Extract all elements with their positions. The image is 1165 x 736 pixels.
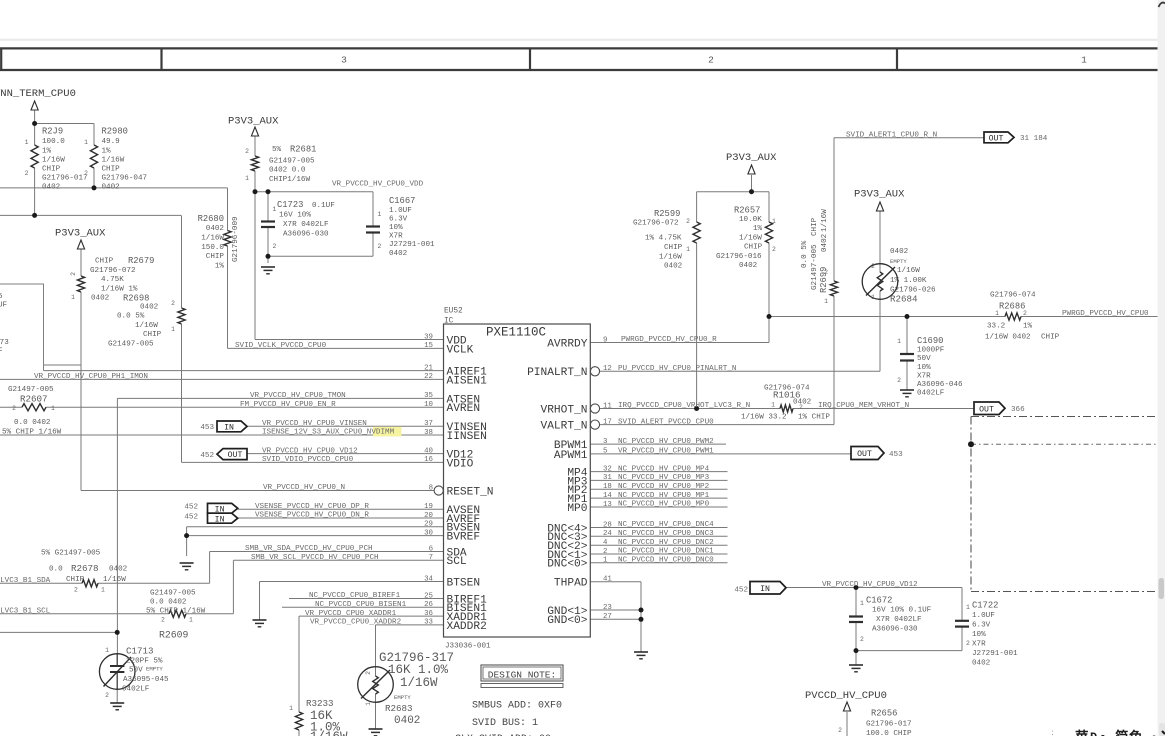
svg-text:J27291-001: J27291-001 [389, 241, 435, 249]
svg-text:IINSEN: IINSEN [447, 431, 487, 443]
svg-text:IRQ_PVCCD_CPU0_VRHOT_LVC3_R_N: IRQ_PVCCD_CPU0_VRHOT_LVC3_R_N [618, 402, 750, 410]
svg-text:G21796-072: G21796-072 [633, 220, 679, 228]
svg-text:2: 2 [708, 54, 714, 65]
svg-text:BTSEN: BTSEN [447, 577, 481, 589]
svg-text:SCL: SCL [447, 556, 467, 568]
svg-text:5% CHIP 1/16W: 5% CHIP 1/16W [2, 428, 62, 436]
svg-text:4.75K: 4.75K [101, 276, 124, 284]
svg-text:1: 1 [71, 294, 75, 301]
svg-text:36: 36 [424, 610, 433, 618]
svg-text:50V: 50V [917, 355, 931, 363]
svg-text:8: 8 [429, 484, 433, 492]
svg-text:VALRT_N: VALRT_N [541, 421, 588, 433]
svg-text:3: 3 [341, 54, 347, 65]
svg-text:1%: 1% [1023, 323, 1033, 331]
svg-text:G21497-005: G21497-005 [269, 157, 315, 165]
svg-text:1: 1 [365, 702, 372, 706]
svg-text:R2684: R2684 [890, 294, 918, 305]
svg-text:29: 29 [424, 521, 433, 529]
svg-text:2: 2 [603, 548, 607, 556]
svg-text:0.0 5%: 0.0 5% [117, 313, 145, 321]
svg-text:IN: IN [224, 424, 234, 433]
svg-text:R2683: R2683 [385, 703, 413, 714]
svg-text:0402LF: 0402LF [122, 685, 150, 693]
svg-text:5: 5 [0, 293, 3, 301]
svg-text:1/16W: 1/16W [310, 730, 348, 736]
svg-text:1/16W: 1/16W [201, 235, 224, 243]
svg-text:0402: 0402 [91, 295, 110, 303]
svg-text:150.0: 150.0 [201, 244, 224, 252]
svg-text:0402: 0402 [109, 566, 128, 574]
svg-text:20: 20 [424, 512, 433, 520]
svg-text:1%: 1% [42, 147, 52, 155]
svg-text:IN: IN [215, 515, 225, 524]
svg-text:R2609: R2609 [159, 630, 189, 641]
svg-text:IC: IC [444, 318, 454, 326]
svg-text:1/16W 0402: 1/16W 0402 [985, 334, 1031, 342]
svg-text:452: 452 [734, 587, 748, 595]
svg-text:D: D [1090, 731, 1097, 736]
svg-text:G21796-009: G21796-009 [232, 216, 240, 262]
svg-text:16K 1.0%: 16K 1.0% [388, 663, 449, 677]
svg-text:1: 1 [824, 298, 828, 305]
svg-text:49.9: 49.9 [102, 138, 121, 146]
svg-text:5% G21497-005: 5% G21497-005 [41, 550, 101, 558]
svg-text:VR_PVCCD_HV_CPU0_VINSEN: VR_PVCCD_HV_CPU0_VINSEN [262, 420, 367, 428]
svg-text:NC_PVCCD_HV_CPU0_MP3: NC_PVCCD_HV_CPU0_MP3 [618, 474, 710, 482]
svg-text:J27291-001: J27291-001 [972, 650, 1018, 658]
svg-text:1/16W: 1/16W [135, 322, 158, 330]
svg-text:CHIP1/16W: CHIP1/16W [269, 176, 310, 184]
svg-text:0402: 0402 [821, 233, 829, 252]
svg-text:SMB_VR_SDA_PVCCD_HV_CPU0_PCH: SMB_VR_SDA_PVCCD_HV_CPU0_PCH [245, 545, 373, 553]
svg-text:SVID_ALERT1_CPU0_R_N: SVID_ALERT1_CPU0_R_N [846, 131, 937, 139]
svg-text:NC_PVCCD_CPU0_BIREF1: NC_PVCCD_CPU0_BIREF1 [309, 592, 401, 600]
svg-text:C1667: C1667 [389, 196, 415, 206]
svg-text:A36096-046: A36096-046 [917, 381, 963, 389]
svg-text:1: 1 [966, 604, 970, 611]
svg-text:16: 16 [424, 456, 433, 464]
svg-text:A36095-045: A36095-045 [123, 676, 169, 684]
svg-text:6: 6 [429, 545, 433, 553]
svg-text:VR_PVCCD_HV_CPU0_PWM1: VR_PVCCD_HV_CPU0_PWM1 [618, 448, 714, 456]
svg-text:NC_PVCCD_HV_CPU0_DNC4: NC_PVCCD_HV_CPU0_DNC4 [618, 521, 714, 529]
svg-text:R2680: R2680 [198, 214, 224, 224]
svg-text:G21796-047: G21796-047 [102, 174, 148, 182]
svg-text:1: 1 [245, 175, 249, 182]
svg-text:0402: 0402 [389, 250, 408, 258]
svg-text:1: 1 [51, 405, 55, 412]
svg-text:7: 7 [429, 554, 433, 562]
svg-text:CHIP: CHIP [664, 244, 683, 252]
svg-text:VR_PVCCD_HV_CPU0_PH1_IMON: VR_PVCCD_HV_CPU0_PH1_IMON [34, 373, 148, 381]
svg-text:1: 1 [772, 218, 776, 225]
svg-text:35: 35 [424, 392, 433, 400]
svg-text:1: 1 [101, 587, 105, 594]
svg-text:1/16W: 1/16W [659, 253, 682, 261]
svg-text:C1713: C1713 [126, 646, 154, 657]
svg-text:0402: 0402 [890, 248, 909, 256]
svg-text:C1722: C1722 [972, 601, 998, 611]
svg-text:CHIP: CHIP [42, 165, 61, 173]
svg-text:1: 1 [995, 310, 999, 317]
svg-text:0.0 5%: 0.0 5% [801, 240, 809, 268]
svg-text:1%: 1% [215, 262, 225, 270]
svg-text:UF: UF [0, 302, 8, 310]
svg-text:CHIP: CHIP [95, 258, 114, 266]
svg-text:MP0: MP0 [567, 503, 587, 515]
svg-text:1%: 1% [753, 225, 763, 233]
svg-text:1%: 1% [102, 147, 112, 155]
svg-text:28: 28 [603, 521, 612, 529]
svg-text:100.0: 100.0 [42, 138, 65, 146]
svg-text:22: 22 [424, 373, 433, 381]
svg-text:SVID BUS: 1: SVID BUS: 1 [472, 718, 538, 729]
svg-text:●: ● [1100, 732, 1106, 736]
svg-text:X7R 0402LF: X7R 0402LF [283, 221, 329, 229]
svg-text:SVID_VCLK_PVCCD_CPU0: SVID_VCLK_PVCCD_CPU0 [235, 342, 327, 350]
svg-text:452: 452 [184, 504, 198, 512]
svg-text:453: 453 [889, 451, 903, 459]
svg-text:2: 2 [838, 727, 842, 734]
svg-text:5% CHIP 1/16W: 5% CHIP 1/16W [146, 607, 206, 615]
svg-text:2: 2 [105, 692, 109, 699]
svg-text:VRHOT_N: VRHOT_N [541, 404, 588, 416]
svg-text:VR_PVCCD_CPU0_XADDR2: VR_PVCCD_CPU0_XADDR2 [310, 619, 402, 627]
svg-text:NC_PVCCD_HV_CPU0_MP0: NC_PVCCD_HV_CPU0_MP0 [618, 501, 710, 509]
svg-text:41: 41 [603, 576, 612, 584]
svg-text:2: 2 [171, 300, 175, 307]
svg-text:2: 2 [378, 243, 382, 250]
svg-text:SMBUS ADD: 0XF0: SMBUS ADD: 0XF0 [472, 701, 562, 712]
svg-text:G21796-017: G21796-017 [42, 174, 88, 182]
svg-text:1: 1 [289, 705, 293, 712]
svg-text:X7R: X7R [917, 372, 931, 380]
svg-text:6-073: 6-073 [0, 339, 9, 347]
svg-text:2: 2 [70, 272, 77, 276]
svg-text:1: 1 [25, 139, 29, 146]
svg-text:R2681: R2681 [290, 145, 316, 155]
svg-text:452: 452 [184, 514, 198, 522]
svg-text:PINALRT_N: PINALRT_N [527, 367, 587, 379]
svg-text:F: F [0, 348, 3, 356]
svg-text:1: 1 [771, 402, 775, 409]
svg-text:VR_PVCCD_HV_CPU0_VD12: VR_PVCCD_HV_CPU0_VD12 [262, 447, 358, 455]
svg-text:17: 17 [603, 418, 612, 426]
svg-text:0.0: 0.0 [49, 566, 63, 574]
svg-text:VR_PVCCD_HV_CPU0_VD12: VR_PVCCD_HV_CPU0_VD12 [822, 581, 918, 589]
svg-text:1: 1 [871, 294, 875, 301]
svg-text:1/16W: 1/16W [103, 576, 126, 584]
svg-text:1/16W: 1/16W [897, 267, 920, 275]
svg-text:38: 38 [424, 429, 433, 437]
svg-text:2: 2 [686, 218, 690, 225]
svg-text:R2699: R2699 [819, 267, 829, 293]
svg-text:OUT: OUT [857, 450, 872, 459]
svg-text:3: 3 [603, 438, 607, 446]
svg-text:RESET_N: RESET_N [447, 486, 494, 498]
svg-text:1000PF: 1000PF [917, 347, 945, 355]
svg-text:16V 10%: 16V 10% [279, 212, 311, 220]
svg-text:0402: 0402 [972, 660, 991, 668]
svg-text:1: 1 [860, 600, 864, 607]
svg-text:2: 2 [161, 617, 165, 624]
svg-text:5%: 5% [272, 146, 282, 154]
svg-text:220PF 5%: 220PF 5% [126, 658, 163, 666]
svg-text:A36096-030: A36096-030 [872, 625, 918, 633]
svg-text:NC_PVCCD_CPU0_BISEN1: NC_PVCCD_CPU0_BISEN1 [315, 601, 407, 609]
svg-text:30: 30 [424, 529, 433, 537]
svg-text:21: 21 [424, 364, 433, 372]
svg-text:6.3V: 6.3V [389, 215, 408, 223]
svg-text:2: 2 [245, 148, 249, 155]
svg-text:1/16W 1%: 1/16W 1% [101, 285, 138, 293]
svg-text:⋮: ⋮ [1048, 730, 1057, 736]
svg-text:0402: 0402 [394, 715, 420, 727]
svg-text:CHIP: CHIP [744, 244, 763, 252]
svg-text:1: 1 [171, 326, 175, 333]
svg-text:DNC<0>: DNC<0> [547, 559, 588, 571]
svg-text:C1690: C1690 [917, 336, 943, 346]
svg-text:AVREN: AVREN [447, 403, 481, 415]
svg-text:31: 31 [603, 474, 612, 482]
svg-text:2: 2 [871, 263, 875, 270]
svg-text:X7R: X7R [389, 233, 403, 241]
svg-text:R2607: R2607 [20, 394, 48, 405]
svg-text:C1723: C1723 [277, 200, 303, 210]
svg-text:50V: 50V [129, 667, 143, 675]
svg-text:J33036-001: J33036-001 [445, 643, 491, 651]
svg-text:1/16W: 1/16W [739, 235, 762, 243]
svg-text:1: 1 [105, 647, 109, 654]
svg-text:14: 14 [603, 492, 612, 500]
svg-text:VNN_TERM_CPU0: VNN_TERM_CPU0 [0, 88, 76, 100]
svg-text:1/16W: 1/16W [42, 156, 65, 164]
svg-text:THPAD: THPAD [554, 578, 588, 590]
svg-text:32: 32 [603, 465, 612, 473]
svg-text:PXE1110C: PXE1110C [486, 326, 546, 340]
svg-text:G21796-016: G21796-016 [716, 253, 762, 261]
svg-text:452: 452 [200, 452, 214, 460]
svg-text:G21796-017: G21796-017 [866, 721, 912, 729]
svg-text:BVREF: BVREF [447, 532, 481, 544]
svg-text:X7R 0402LF: X7R 0402LF [876, 616, 922, 624]
svg-text:10%: 10% [917, 364, 931, 372]
svg-text:1.0UF: 1.0UF [389, 207, 412, 215]
svg-text:2: 2 [74, 587, 78, 594]
svg-text:1: 1 [189, 617, 193, 624]
svg-text:1: 1 [84, 139, 88, 146]
svg-text:SVID_ALERT_PVCCD_CPU0: SVID_ALERT_PVCCD_CPU0 [618, 418, 714, 426]
svg-text:CHIP: CHIP [206, 253, 225, 261]
svg-text:NC_PVCCD_HV_CPU0_MP4: NC_PVCCD_HV_CPU0_MP4 [618, 465, 710, 473]
svg-text:1: 1 [378, 211, 382, 218]
svg-text:0.1UF: 0.1UF [312, 202, 335, 210]
svg-text:1/16W 33.2: 1/16W 33.2 [741, 414, 787, 422]
svg-text:33.2: 33.2 [987, 323, 1006, 331]
svg-text:0402: 0402 [42, 183, 61, 191]
svg-text:0402 0.0: 0402 0.0 [269, 167, 306, 175]
svg-text:2: 2 [772, 246, 776, 253]
svg-text:1: 1 [273, 206, 277, 213]
svg-text:XADDR2: XADDR2 [447, 621, 487, 633]
svg-text:DESIGN NOTE:: DESIGN NOTE: [488, 670, 556, 681]
svg-text:24: 24 [603, 530, 612, 538]
svg-text:NC_PVCCD_HV_CPU0_DNC2: NC_PVCCD_HV_CPU0_DNC2 [618, 539, 714, 547]
svg-text:AISEN1: AISEN1 [447, 375, 488, 387]
svg-text:1.0UF: 1.0UF [972, 612, 995, 620]
svg-text:0402: 0402 [206, 225, 225, 233]
svg-text:VR_PVCCD_HV_CPU0_VDD: VR_PVCCD_HV_CPU0_VDD [332, 181, 424, 189]
svg-text:R2657: R2657 [734, 206, 760, 216]
svg-text:CHIP: CHIP [143, 331, 162, 339]
svg-text:R2698: R2698 [123, 294, 149, 304]
svg-text:OUT: OUT [228, 451, 243, 460]
svg-text:2: 2 [25, 170, 29, 177]
svg-text:0402LF: 0402LF [917, 390, 945, 398]
svg-text:0402: 0402 [140, 303, 159, 311]
svg-text:1/16W: 1/16W [821, 209, 829, 232]
svg-text:OUT: OUT [979, 405, 994, 414]
svg-text:C1672: C1672 [866, 596, 892, 606]
svg-text:1/16W: 1/16W [102, 156, 125, 164]
svg-text:1/16W: 1/16W [400, 676, 438, 690]
svg-text:100.0 CHIP: 100.0 CHIP [866, 730, 912, 736]
svg-text:0402: 0402 [102, 183, 121, 191]
svg-text:P3V3_AUX: P3V3_AUX [726, 152, 777, 164]
svg-text:OUT: OUT [989, 135, 1004, 144]
svg-text:CHIP: CHIP [66, 576, 85, 584]
svg-text:23: 23 [603, 604, 612, 612]
svg-text:PWRGD_PVCCD_HV_CPU0_R: PWRGD_PVCCD_HV_CPU0_R [621, 336, 717, 344]
svg-text:VR_PVCCD_HV_CPU0_TMON: VR_PVCCD_HV_CPU0_TMON [250, 392, 346, 400]
svg-text:NC_PVCCD_HV_CPU0_PWM2: NC_PVCCD_HV_CPU0_PWM2 [618, 438, 714, 446]
svg-text:13: 13 [603, 501, 612, 509]
svg-text:IRQ_CPU0_MEM_VRHOT_N: IRQ_CPU0_MEM_VRHOT_N [818, 402, 909, 410]
svg-text:G21497-005: G21497-005 [150, 590, 196, 598]
svg-text:31 184: 31 184 [1020, 135, 1048, 143]
svg-text:M_LVC3_B1_SDA: M_LVC3_B1_SDA [0, 577, 51, 585]
svg-text:R2J9: R2J9 [42, 127, 63, 137]
svg-text:EMPTY: EMPTY [890, 258, 907, 265]
svg-text:1: 1 [686, 246, 690, 253]
svg-text:2: 2 [897, 377, 901, 384]
svg-text:10%: 10% [389, 224, 403, 232]
svg-text:2: 2 [12, 405, 16, 412]
svg-text:10%: 10% [972, 631, 986, 639]
svg-text:6.3V: 6.3V [972, 622, 991, 630]
svg-text:12: 12 [603, 365, 612, 373]
svg-text:2: 2 [860, 636, 864, 643]
svg-text:EU52: EU52 [444, 308, 463, 316]
svg-text:2: 2 [365, 671, 372, 675]
svg-text:VCLK: VCLK [447, 344, 474, 356]
svg-text:0.0 0402: 0.0 0402 [150, 599, 187, 607]
svg-text:CHIP: CHIP [811, 217, 819, 236]
svg-text:A36096-030: A36096-030 [283, 231, 329, 239]
svg-text:EMPTY: EMPTY [394, 694, 411, 701]
svg-text:27: 27 [603, 613, 612, 621]
svg-text:2: 2 [1023, 310, 1027, 317]
svg-text:R2679: R2679 [128, 256, 154, 266]
svg-text:R2980: R2980 [102, 127, 128, 137]
svg-text:1% CHIP: 1% CHIP [798, 414, 830, 422]
svg-text:CHIP: CHIP [102, 165, 121, 173]
svg-text:M_LVC3_B1_SCL: M_LVC3_B1_SCL [0, 607, 51, 615]
svg-text:37: 37 [424, 420, 433, 428]
svg-text:NC_PVCCD_HV_CPU0_DNC1: NC_PVCCD_HV_CPU0_DNC1 [618, 548, 714, 556]
svg-text:1% 1.00K: 1% 1.00K [890, 277, 927, 285]
svg-text:IN: IN [760, 585, 770, 594]
svg-text:453: 453 [200, 424, 214, 432]
svg-text:5: 5 [603, 448, 607, 456]
svg-text:G21497-005: G21497-005 [811, 244, 819, 290]
svg-text:AVRRDY: AVRRDY [547, 338, 588, 350]
svg-text:R2599: R2599 [654, 209, 680, 219]
svg-text:1% 4.75K: 1% 4.75K [645, 235, 682, 243]
svg-text:18: 18 [603, 483, 612, 491]
svg-text:P3V3_AUX: P3V3_AUX [55, 228, 106, 240]
svg-text:NC_PVCCD_HV_CPU0_DNC3: NC_PVCCD_HV_CPU0_DNC3 [618, 530, 714, 538]
svg-text:VDIO: VDIO [447, 458, 474, 470]
svg-text:SVID_VDIO_PVCCD_CPU0: SVID_VDIO_PVCCD_CPU0 [262, 456, 354, 464]
svg-text:ISENSE_12V_S3_AUX_CPU0_NVDIMM: ISENSE_12V_S3_AUX_CPU0_NVDIMM [262, 429, 395, 437]
svg-text:25: 25 [424, 592, 433, 600]
svg-text:0402: 0402 [664, 263, 683, 271]
svg-text:15: 15 [424, 342, 433, 350]
svg-text:R2656: R2656 [871, 709, 897, 719]
svg-text:VSENSE_PVCCD_HV_CPU0_DN_R: VSENSE_PVCCD_HV_CPU0_DN_R [255, 512, 369, 520]
svg-text:G21497-005: G21497-005 [108, 340, 154, 348]
svg-text:9: 9 [603, 336, 607, 344]
svg-text:R3233: R3233 [306, 698, 334, 709]
svg-text:34: 34 [424, 575, 433, 583]
svg-text:APWM1: APWM1 [554, 450, 588, 462]
svg-text:EMPTY: EMPTY [146, 666, 163, 673]
svg-text:1: 1 [897, 338, 901, 345]
svg-text:FM_PVCCD_HV_CPU0_EN_R: FM_PVCCD_HV_CPU0_EN_R [240, 401, 336, 409]
svg-text:0.0 0402: 0.0 0402 [14, 419, 51, 427]
svg-text:PWRGD_PVCCD_HV_CPU0: PWRGD_PVCCD_HV_CPU0 [1062, 310, 1149, 318]
svg-text:366: 366 [1011, 406, 1025, 414]
svg-text:R2678: R2678 [71, 563, 99, 574]
svg-text:NC_PVCCD_HV_CPU0_MP2: NC_PVCCD_HV_CPU0_MP2 [618, 483, 710, 491]
svg-text:2: 2 [273, 243, 277, 250]
svg-text:R2686: R2686 [999, 302, 1025, 312]
svg-text:0402: 0402 [739, 262, 758, 270]
svg-text:4: 4 [603, 539, 608, 547]
svg-text:PU_PVCCD_HV_CPU0_PINALRT_N: PU_PVCCD_HV_CPU0_PINALRT_N [618, 365, 736, 373]
svg-text:19: 19 [424, 503, 433, 511]
svg-text:33: 33 [424, 619, 433, 627]
svg-text:VR_PVCCD_CPU0_XADDR1: VR_PVCCD_CPU0_XADDR1 [305, 610, 397, 618]
svg-text:G21796-074: G21796-074 [990, 292, 1036, 300]
svg-text:VSENSE_PVCCD_HV_CPU0_DP_R: VSENSE_PVCCD_HV_CPU0_DP_R [255, 503, 369, 511]
svg-text:10: 10 [424, 401, 433, 409]
svg-text:X7R: X7R [972, 641, 986, 649]
svg-text:1: 1 [603, 557, 608, 565]
svg-text:SMB_VR_SCL_PVCCD_HV_CPU0_PCH: SMB_VR_SCL_PVCCD_HV_CPU0_PCH [251, 554, 379, 562]
svg-text:40: 40 [424, 447, 433, 455]
svg-text:11: 11 [603, 402, 612, 410]
svg-text:CHIP: CHIP [1041, 334, 1060, 342]
svg-text:P3V3_AUX: P3V3_AUX [228, 116, 279, 128]
svg-text:2: 2 [799, 404, 803, 411]
svg-text:26: 26 [424, 601, 433, 609]
svg-text:1: 1 [1081, 54, 1087, 65]
svg-text:PVCCD_HV_CPU0: PVCCD_HV_CPU0 [805, 690, 887, 702]
svg-text:P3V3_AUX: P3V3_AUX [854, 189, 905, 201]
